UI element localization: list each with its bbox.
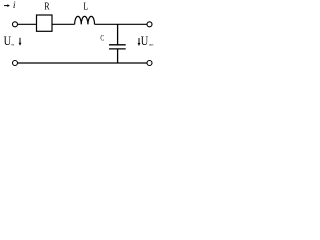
wire: top-left terminal to resistor bbox=[18, 23, 37, 25]
resistor R bbox=[37, 15, 53, 31]
svg-text:U: U bbox=[141, 34, 149, 48]
terminal bottom-left bbox=[13, 61, 18, 66]
capacitor C top lead bbox=[117, 24, 119, 45]
svg-text:R: R bbox=[44, 1, 50, 13]
capacitor C bottom lead bbox=[117, 49, 119, 63]
inductor L bbox=[75, 16, 95, 24]
terminal bottom-right bbox=[147, 61, 152, 66]
svg-text:ein: ein bbox=[11, 43, 14, 47]
svg-text:U: U bbox=[4, 34, 12, 48]
svg-text:L: L bbox=[83, 0, 88, 12]
wire: inductor to top-right terminal bbox=[95, 23, 147, 25]
current arrow i bbox=[4, 4, 10, 7]
wire: resistor to inductor bbox=[52, 23, 75, 25]
svg-text:C: C bbox=[100, 33, 104, 43]
bottom rail wire bbox=[18, 62, 148, 64]
terminal top-left bbox=[13, 22, 18, 27]
terminal top-right bbox=[147, 22, 152, 27]
svg-text:i: i bbox=[13, 1, 16, 11]
output voltage arrow down bbox=[138, 38, 141, 46]
input voltage arrow down bbox=[19, 38, 22, 46]
capacitor C plates bbox=[109, 44, 126, 46]
